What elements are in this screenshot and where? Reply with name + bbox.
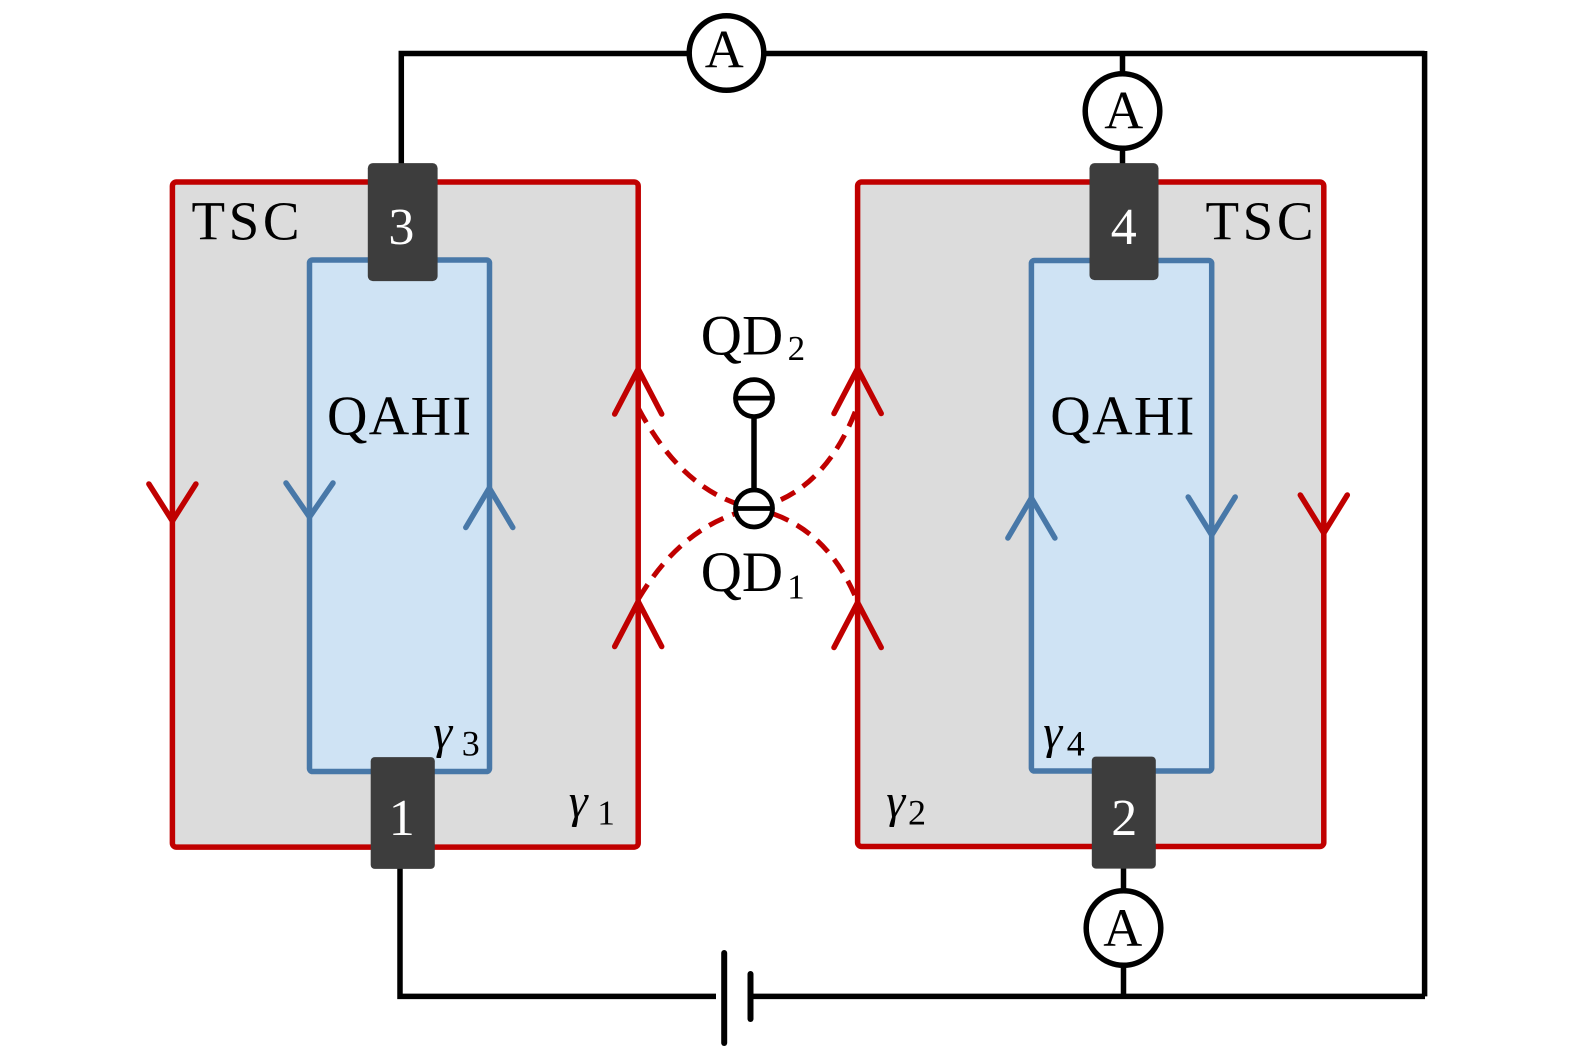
contact 2 (bottom-right electrode) — [1092, 757, 1156, 869]
edge arrow blue, left QAHI left edge, downward — [286, 483, 333, 517]
wire from contact 2 down through ammeter A3 to bottom bus — [1121, 866, 1127, 996]
contact 1 (bottom-left electrode) — [371, 757, 435, 869]
wire bottom right from battery to bottom-right corner — [753, 994, 1425, 1000]
svg-text:A: A — [1103, 898, 1142, 958]
QAHI region right (light blue) — [1031, 261, 1211, 772]
quantum dot QD2 circle — [736, 380, 773, 417]
svg-text:QD: QD — [701, 305, 783, 368]
svg-text:QAHI: QAHI — [1050, 386, 1194, 448]
svg-text:γ: γ — [886, 775, 906, 828]
edge arrow blue, right QAHI left edge, upward — [1008, 498, 1055, 538]
TSC region left (gray, red border) — [172, 182, 638, 847]
edge arrow blue, right QAHI right edge, downward — [1188, 497, 1235, 535]
wire from top bus down through ammeter A2 to contact 4 — [1120, 54, 1126, 166]
tunnel coupling dashed curve A (upper-left to lower-right through QD1) — [639, 409, 857, 599]
svg-text:1: 1 — [597, 794, 615, 833]
edge arrow blue, left QAHI right edge, upward — [466, 488, 513, 528]
battery long plate — [721, 953, 727, 1043]
tunnel coupling dashed curve B (lower-left to upper-right through QD1) — [639, 409, 857, 599]
svg-text:1: 1 — [787, 568, 805, 607]
wire bottom left from contact 1 down and right to battery — [400, 867, 716, 996]
svg-text:4: 4 — [1067, 724, 1085, 764]
svg-text:QAHI: QAHI — [327, 386, 471, 448]
svg-text:γ: γ — [433, 706, 453, 759]
svg-text:QD: QD — [701, 541, 783, 604]
svg-text:2: 2 — [788, 329, 806, 368]
svg-text:4: 4 — [1111, 199, 1137, 256]
chiral edge arrow red, right TSC left edge lower, upward — [834, 603, 881, 648]
contact 4 (top-right electrode) — [1090, 163, 1159, 280]
QAHI region left (light blue) — [310, 260, 490, 772]
ammeter A2 (right upper) — [1085, 74, 1160, 149]
svg-text:A: A — [1104, 81, 1143, 141]
svg-text:3: 3 — [462, 724, 480, 764]
svg-text:TSC: TSC — [1206, 191, 1314, 252]
chiral edge arrow red, right TSC right edge, downward — [1300, 495, 1347, 533]
svg-text:3: 3 — [388, 199, 414, 256]
svg-text:TSC: TSC — [192, 191, 300, 252]
chiral edge arrow red, left TSC right edge upper, upward — [615, 369, 662, 414]
svg-text:1: 1 — [389, 790, 415, 847]
svg-text:2: 2 — [1111, 790, 1137, 847]
svg-text:γ: γ — [1043, 706, 1063, 759]
svg-text:2: 2 — [908, 793, 926, 833]
quantum dot QD1 circle — [736, 490, 773, 527]
chiral edge arrow red, left TSC left edge, downward — [149, 484, 196, 521]
battery short plate — [748, 974, 754, 1019]
ammeter A3 (bottom right) — [1086, 891, 1161, 966]
contact 3 (top-left electrode) — [368, 163, 438, 281]
chiral edge arrow red, left TSC right edge lower, upward — [615, 602, 662, 647]
svg-text:γ: γ — [569, 775, 589, 828]
ammeter A1 (top) — [689, 16, 764, 91]
TSC region right (gray, red border) — [858, 182, 1324, 847]
chiral edge arrow red, right TSC left edge upper, upward — [834, 369, 881, 414]
svg-text:A: A — [705, 20, 744, 80]
wire right vertical down right side — [1422, 51, 1428, 996]
QD link line between QD1 and QD2 — [751, 400, 757, 507]
wire top from contact 3 up and across to top-right corner — [401, 54, 1424, 166]
